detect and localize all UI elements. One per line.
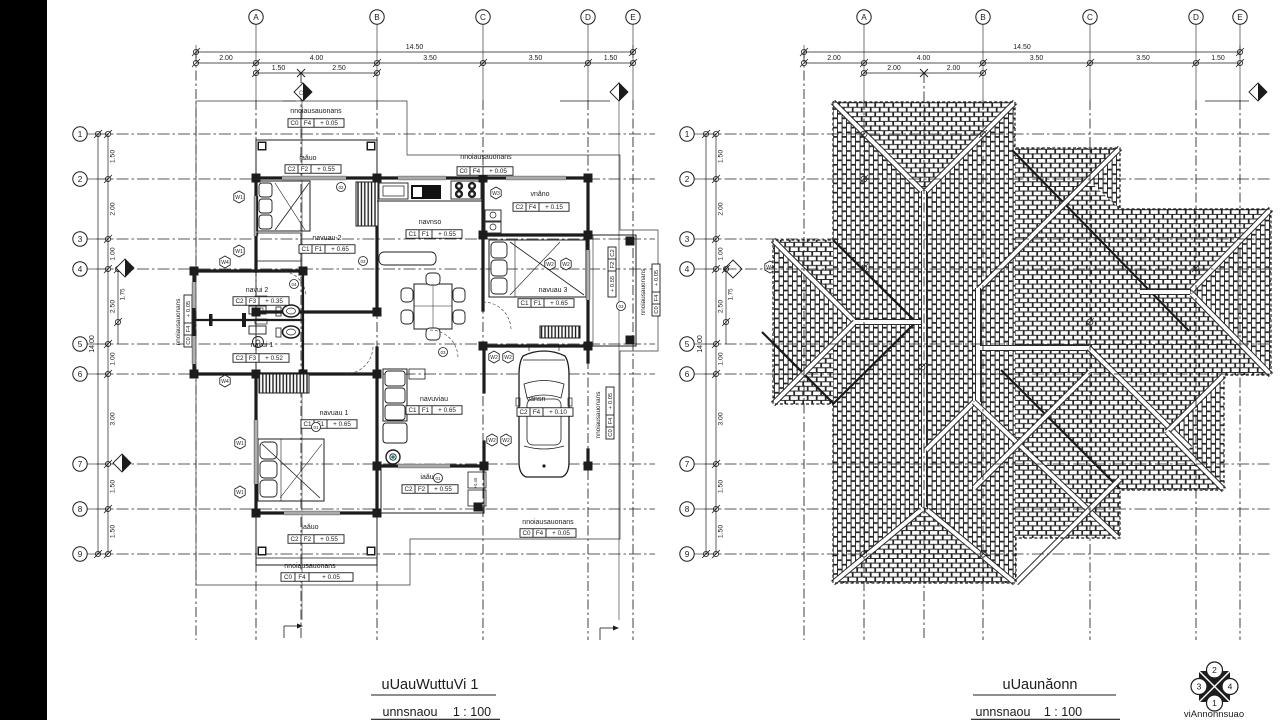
svg-text:W1: W1 (236, 490, 244, 496)
svg-text:F1: F1 (534, 300, 542, 307)
svg-text:W1: W1 (235, 249, 243, 255)
svg-text:14.50: 14.50 (406, 44, 424, 51)
svg-text:+ 0.65: + 0.65 (331, 246, 349, 253)
svg-text:03: 03 (618, 304, 624, 309)
svg-text:C1: C1 (408, 407, 417, 414)
svg-text:navuviau: navuviau (420, 396, 448, 403)
svg-text:unnsnaou: unnsnaou (383, 705, 438, 719)
svg-text:1.00: 1.00 (718, 352, 725, 365)
svg-text:C: C (480, 13, 486, 22)
svg-text:4: 4 (685, 265, 690, 274)
svg-text:3.50: 3.50 (1030, 55, 1044, 62)
svg-text:C2: C2 (235, 298, 244, 305)
svg-text:3.50: 3.50 (529, 55, 543, 62)
svg-text:1.50: 1.50 (110, 480, 117, 493)
svg-text:1.00: 1.00 (718, 247, 725, 260)
svg-text:1.50: 1.50 (718, 150, 725, 163)
svg-text:nnoiausauonans: nnoiausauonans (522, 519, 574, 526)
svg-text:A: A (861, 13, 867, 22)
svg-text:F3: F3 (249, 355, 257, 362)
svg-text:D: D (585, 13, 591, 22)
svg-text:C2: C2 (515, 204, 524, 211)
svg-text:W1: W1 (235, 195, 243, 201)
svg-text:C: C (299, 91, 304, 97)
svg-text:+ 0.55: + 0.55 (434, 486, 452, 493)
svg-text:C1: C1 (301, 246, 310, 253)
svg-text:+ 0.55: + 0.55 (610, 276, 616, 292)
svg-text:C2: C2 (519, 409, 528, 416)
svg-text:F4: F4 (654, 294, 660, 302)
svg-text:navui 2: navui 2 (246, 287, 269, 294)
svg-text:2.00: 2.00 (947, 65, 961, 72)
svg-text:3.50: 3.50 (423, 55, 437, 62)
svg-text:04: 04 (291, 282, 297, 287)
svg-text:W4: W4 (221, 260, 229, 266)
svg-text:E: E (630, 13, 636, 22)
svg-text:navui 1: navui 1 (251, 342, 274, 349)
svg-text:W4: W4 (221, 379, 229, 385)
svg-text:1.75: 1.75 (120, 288, 127, 301)
svg-text:8: 8 (685, 505, 690, 514)
svg-text:+ 0.05: + 0.05 (322, 574, 340, 581)
svg-text:F2: F2 (610, 262, 616, 269)
svg-text:5: 5 (78, 340, 83, 349)
svg-text:+ 0.05: + 0.05 (186, 301, 192, 317)
svg-text:iaăuo: iaăuo (299, 155, 316, 162)
svg-text:F2: F2 (418, 486, 426, 493)
svg-text:2.00: 2.00 (219, 55, 233, 62)
svg-text:+ 0.55: + 0.55 (320, 536, 338, 543)
svg-text:B: B (374, 13, 380, 22)
svg-text:nnoiausauonans: nnoiausauonans (284, 563, 336, 570)
svg-text:+ 0.55: + 0.55 (317, 166, 335, 173)
svg-text:F3: F3 (249, 298, 257, 305)
svg-text:C0: C0 (608, 429, 614, 436)
svg-text:1.50: 1.50 (604, 55, 618, 62)
svg-text:W3: W3 (492, 191, 500, 197)
svg-text:C2: C2 (404, 486, 413, 493)
svg-text:5: 5 (685, 340, 690, 349)
svg-text:1 : 100: 1 : 100 (1044, 705, 1082, 719)
svg-text:2.50: 2.50 (718, 300, 725, 313)
svg-text:01: 01 (313, 425, 319, 430)
svg-text:2.50: 2.50 (110, 300, 117, 313)
svg-text:C2: C2 (235, 355, 244, 362)
svg-text:+ 0.05: + 0.05 (654, 270, 660, 286)
svg-text:W2: W2 (504, 355, 512, 361)
svg-text:unnsnaou: unnsnaou (976, 705, 1031, 719)
svg-text:W2: W2 (502, 438, 510, 444)
svg-text:3.50: 3.50 (1136, 55, 1150, 62)
svg-text:1.50: 1.50 (1211, 55, 1225, 62)
svg-text:14.00: 14.00 (697, 335, 704, 353)
svg-text:C0: C0 (522, 530, 531, 537)
svg-text:2.00: 2.00 (718, 202, 725, 215)
svg-text:6: 6 (78, 370, 83, 379)
svg-text:+ 0.05: + 0.05 (489, 168, 507, 175)
svg-text:+ 0.05: + 0.05 (320, 120, 338, 127)
svg-text:C1: C1 (520, 300, 529, 307)
svg-text:navuau 3: navuau 3 (539, 287, 568, 294)
svg-text:2: 2 (685, 175, 690, 184)
svg-text:navnso: navnso (419, 219, 442, 226)
svg-text:03: 03 (440, 350, 446, 355)
svg-text:navuau 1: navuau 1 (320, 410, 349, 417)
svg-text:iaăuo: iaăuo (301, 524, 318, 531)
svg-text:+ 0.35: + 0.35 (265, 298, 283, 305)
svg-text:C0: C0 (459, 168, 468, 175)
svg-text:C0: C0 (186, 337, 192, 344)
svg-text:F1: F1 (315, 246, 323, 253)
svg-text:2.00: 2.00 (887, 65, 901, 72)
svg-text:1: 1 (78, 130, 83, 139)
svg-text:nnoiausauonans: nnoiausauonans (640, 269, 647, 316)
svg-text:W2: W2 (546, 262, 554, 268)
svg-text:C0: C0 (290, 120, 299, 127)
svg-text:C2: C2 (610, 249, 616, 256)
svg-text:3: 3 (1197, 682, 1202, 692)
svg-text:4: 4 (78, 265, 83, 274)
svg-text:vansn: vansn (527, 396, 546, 403)
svg-text:7: 7 (78, 460, 83, 469)
svg-text:2.00: 2.00 (827, 55, 841, 62)
svg-text:4.00: 4.00 (310, 55, 324, 62)
svg-text:F4: F4 (608, 417, 614, 425)
svg-text:F4: F4 (473, 168, 481, 175)
svg-text:1 : 100: 1 : 100 (453, 705, 491, 719)
svg-text:F1: F1 (422, 231, 430, 238)
svg-text:+ 0.65: + 0.65 (438, 407, 456, 414)
svg-text:+ 0.05: + 0.05 (552, 530, 570, 537)
svg-text:3.00: 3.00 (718, 412, 725, 425)
svg-text:1.50: 1.50 (110, 150, 117, 163)
svg-text:+ 0.15: + 0.15 (545, 204, 563, 211)
svg-text:C: C (1087, 13, 1093, 22)
svg-text:3: 3 (685, 235, 690, 244)
svg-text:F1: F1 (422, 407, 430, 414)
svg-text:F4: F4 (533, 409, 541, 416)
svg-text:C1: C1 (408, 231, 417, 238)
svg-text:nnoiausauonans: nnoiausauonans (175, 299, 182, 346)
svg-text:14.50: 14.50 (1013, 44, 1031, 51)
svg-text:W2: W2 (490, 355, 498, 361)
svg-text:W2: W2 (488, 438, 496, 444)
svg-text:6: 6 (685, 370, 690, 379)
svg-text:F4: F4 (536, 530, 544, 537)
svg-text:9: 9 (685, 550, 690, 559)
svg-text:+0.40: +0.40 (473, 477, 478, 488)
svg-text:F4: F4 (298, 574, 306, 581)
svg-text:03: 03 (360, 259, 366, 264)
svg-text:navuau-2: navuau-2 (312, 235, 341, 242)
svg-text:F4: F4 (304, 120, 312, 127)
svg-text:C0: C0 (654, 306, 660, 313)
svg-text:nnoiausauonans: nnoiausauonans (290, 108, 342, 115)
svg-text:8: 8 (78, 505, 83, 514)
svg-text:+ 0.55: + 0.55 (438, 231, 456, 238)
svg-text:14.00: 14.00 (89, 335, 96, 353)
svg-text:02: 02 (338, 185, 344, 190)
svg-text:1.50: 1.50 (718, 480, 725, 493)
svg-text:3.00: 3.00 (110, 412, 117, 425)
svg-text:A: A (253, 13, 259, 22)
svg-text:viAnnonnsuao: viAnnonnsuao (1184, 709, 1244, 720)
svg-text:1.50: 1.50 (718, 525, 725, 538)
svg-text:+ 0.05: + 0.05 (608, 393, 614, 409)
svg-text:1.75: 1.75 (728, 288, 735, 301)
svg-text:2.50: 2.50 (332, 65, 346, 72)
svg-text:2: 2 (78, 175, 83, 184)
svg-text:E: E (1237, 13, 1243, 22)
svg-text:3: 3 (78, 235, 83, 244)
svg-text:+ 0.65: + 0.65 (550, 300, 568, 307)
svg-text:C0: C0 (284, 574, 293, 581)
svg-text:F4: F4 (529, 204, 537, 211)
svg-text:4: 4 (1228, 682, 1233, 692)
svg-text:uUaunăonn: uUaunăonn (1003, 677, 1078, 693)
svg-text:uUauWuttuVi 1: uUauWuttuVi 1 (382, 677, 479, 693)
svg-text:+ 0.52: + 0.52 (265, 355, 283, 362)
svg-text:W2: W2 (562, 262, 570, 268)
svg-text:2: 2 (1212, 665, 1217, 675)
svg-text:2.00: 2.00 (110, 202, 117, 215)
svg-text:vnăno: vnăno (530, 191, 549, 198)
svg-text:+ 0.10: + 0.10 (549, 409, 567, 416)
svg-text:C2: C2 (287, 166, 296, 173)
svg-text:F2: F2 (304, 536, 312, 543)
svg-text:1.50: 1.50 (272, 65, 286, 72)
svg-text:9: 9 (78, 550, 83, 559)
svg-text:+ 0.65: + 0.65 (333, 421, 351, 428)
svg-text:C1: C1 (303, 421, 312, 428)
svg-text:7: 7 (685, 460, 690, 469)
svg-text:C2: C2 (290, 536, 299, 543)
svg-text:1: 1 (1212, 698, 1217, 708)
svg-text:1: 1 (685, 130, 690, 139)
svg-text:01: 01 (435, 476, 441, 481)
svg-text:1.50: 1.50 (110, 525, 117, 538)
svg-text:B: B (980, 13, 986, 22)
svg-text:D: D (1193, 13, 1199, 22)
svg-text:F2: F2 (301, 166, 309, 173)
svg-text:F4: F4 (186, 325, 192, 333)
svg-text:W1: W1 (236, 441, 244, 447)
svg-text:nnoiausauonans: nnoiausauonans (460, 154, 512, 161)
svg-text:1.00: 1.00 (110, 352, 117, 365)
svg-text:nnoiausauonans: nnoiausauonans (595, 392, 602, 439)
svg-text:4.00: 4.00 (917, 55, 931, 62)
svg-text:1.00: 1.00 (110, 247, 117, 260)
